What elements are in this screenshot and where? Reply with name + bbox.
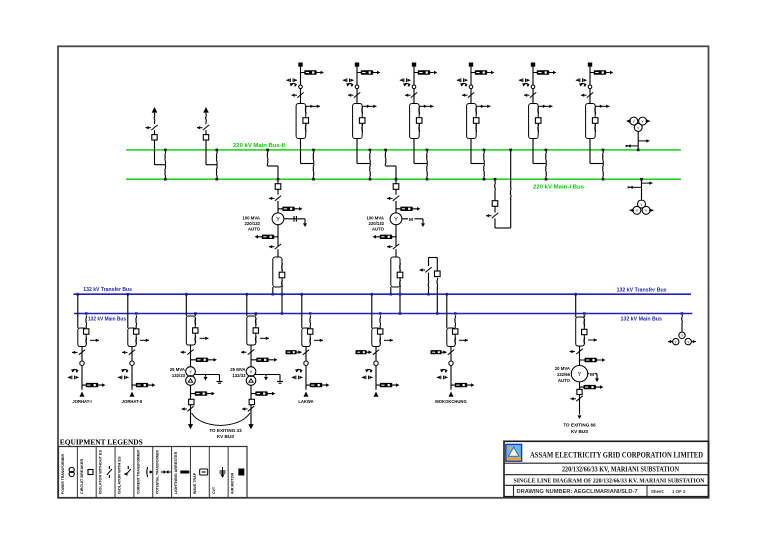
svg-text:132 kV Transfer Bus: 132 kV Transfer Bus [83,287,132,293]
metering arrow branch [459,339,468,341]
circuit breaker bay 6 [592,118,598,124]
25 MVA bay 1 stem + isolator [190,345,192,367]
legend divider 5 [152,447,154,498]
CT loop [372,328,380,347]
svg-text:100 MVA: 100 MVA [242,216,260,221]
bay 6 wire down from terminal [589,67,591,104]
wave trap branch [451,384,471,386]
bay 3 CVT cluster [404,83,410,84]
wave trap branch [376,384,396,386]
PT circle [449,361,453,365]
svg-text:CIRCUIT BREAKER: CIRCUIT BREAKER [80,458,84,494]
bay 2 metering arrow branch [363,105,377,107]
bay 2 wave trap branch [357,72,377,74]
bay 6 CT wavy marks [594,106,597,114]
circuit breaker ATR bay 2 [393,184,399,190]
ATR bay 2 neutral earthing branch [402,218,408,220]
bay 1 bus-II isolator [312,150,315,164]
legend divider 9 [227,447,229,498]
CT wavy [309,338,312,345]
CT loop [78,328,86,347]
bay 2 CT loop (racetrack) [353,104,363,139]
bay 6 isolator with arrow [587,92,593,97]
bay stem [81,347,83,390]
bay 4 CT loop (racetrack) [467,104,477,139]
legend divider 6 [171,447,173,498]
bay stem [131,347,133,390]
svg-text:JORHAT-I: JORHAT-I [72,399,91,404]
main bus isolator leg [309,312,312,315]
svg-text:25 MVA: 25 MVA [170,367,185,372]
circuit breaker bay 5 [535,118,541,124]
svg-text:DRAWING NUMBER: AEGCL/MARIANI/: DRAWING NUMBER: AEGCL/MARIANI/SLD-7 [517,489,638,495]
ATR bay 1 isolator [277,189,279,194]
circuit breaker [308,329,313,334]
bay 1 CVT cluster [290,83,296,84]
drawing number row box [514,485,709,496]
line isolator [303,350,309,355]
132 kV bus coupler top link [429,257,438,259]
svg-text:Sheet:: Sheet: [651,489,665,494]
svg-text:132/66: 132/66 [557,372,571,377]
bay 4 wave trap branch [471,72,491,74]
132 kV feeder bay LAKWA: transfer bus leg [301,293,304,296]
100 MVA ATR bay 1: isolator from Bus-II [266,149,269,152]
CT loop [128,328,136,347]
svg-text:Y: Y [394,217,398,223]
small 220 kV bay 2: line arrow [203,107,209,113]
bus coupler isolator wavy [494,182,497,190]
ATR bay 1 LV isolator [275,244,281,249]
small bay 2 wire to buses [205,140,207,165]
bay 1 wire to bus selection [300,139,302,164]
ATR bay 2 connection to Bus-I [395,178,398,181]
CT wavy [454,338,457,345]
25 MVA bay 2: transfer bus leg [246,293,249,296]
svg-text:AUTO: AUTO [372,226,385,231]
bay 1 wave trap branch [301,72,321,74]
bay 5 CT loop (racetrack) [529,104,539,139]
svg-text:220 kV Main Bus-II: 220 kV Main Bus-II [233,143,286,149]
220 kV line bay 2: line terminal [355,63,359,67]
bay 3 bus-I isolator [426,164,429,180]
220 kV line bay 3: line terminal [412,63,416,67]
svg-text:220/132: 220/132 [368,221,384,226]
bay 6 bus-I isolator [602,164,605,180]
station transformer arrows [668,341,673,343]
wave trap branch [82,384,102,386]
220 kV station transformer above Bus-II [630,117,638,125]
svg-text:1 OF 2: 1 OF 2 [672,489,686,494]
title block separator 1 [504,462,709,464]
bay 6 metering arrow branch [596,105,610,107]
circuit breaker ATR bay 1 [275,184,281,190]
svg-text:TO EXITING 33: TO EXITING 33 [209,428,242,433]
CT wavy [135,338,138,345]
circuit breaker small bay 1 [154,130,156,134]
legend divider 1 [76,447,78,498]
25 MVA bay 1 outgoing arrow [188,424,193,429]
outgoing line terminal [80,392,85,397]
svg-text:EQUIPMENT LEGENDS: EQUIPMENT LEGENDS [60,437,143,446]
line isolator [448,350,454,355]
equipment legends box [59,447,248,498]
20 MVA bay CT loop [576,317,585,346]
bay 4 metering arrow branch [477,105,491,107]
svg-text:132 kV Main Bus: 132 kV Main Bus [621,317,663,323]
25 MVA bay 2 CT loop [247,316,256,345]
25 MVA bay 2 LV isolator [250,405,252,417]
bay 5 CT wavy marks [537,106,540,114]
bay 5 wire to bus selection [532,139,534,164]
ATR bay 2 LV CT loop [391,257,400,287]
bay 2 PT circle [355,85,359,89]
ATR bay 1 link to main bus [281,287,283,314]
bay 1 metering arrow branch [306,105,320,107]
25 MVA 132/33 transformer 1 circles [186,367,196,377]
25 MVA bay 1: transfer bus leg [185,293,188,296]
circuit breaker bay 4 [473,118,479,124]
svg-text:AIR MOTOR: AIR MOTOR [231,472,235,494]
ATR bay 2 link to main bus [399,287,401,314]
outgoing line terminal [130,392,135,397]
svg-text:25 MVA: 25 MVA [230,367,245,372]
svg-text:Y: Y [578,372,582,378]
circuit breaker small bay 2 [205,130,207,134]
bus coupler isolator below breaker [494,206,496,212]
CVT cluster [122,369,128,370]
bay 5 wave trap branch [533,72,553,74]
circuit breaker 25 MVA bay 1 LV [189,399,194,404]
220 kV bus coupler leg from Bus-I [494,178,497,181]
circuit breaker 132 kV bus coupler [436,258,438,272]
circuit breaker 20 MVA LV [577,389,582,394]
bay 5 isolator with arrow [530,92,536,97]
PT circle [374,361,378,365]
station transformer 3-winding circles [679,332,685,338]
circuit breaker [453,329,458,334]
svg-text:LIGHTNING ARRESTER: LIGHTNING ARRESTER [174,451,178,494]
132 kV feeder bay unnamed: transfer bus leg [371,293,374,296]
220 kV line bay 4: line terminal [469,63,473,67]
bay 3 PT circle [412,85,416,89]
132 kV bus coupler transfer-bus leg isolator [428,258,430,267]
small bay 2 bus isolators [215,150,218,165]
svg-text:JORHAT-II: JORHAT-II [122,399,142,404]
small bay 2 isolator [203,125,209,130]
legend divider 8 [208,447,210,498]
ATR bay 2 LV wave trap branch [395,225,397,246]
CVT cluster [366,369,372,370]
bay 1 bus-I isolator [312,164,315,180]
bay 4 isolator with arrow [468,92,474,97]
132 kV Transfer Bus (blue) [74,293,692,295]
outgoing line terminal [374,392,379,397]
wave trap branch [132,384,152,386]
bay 4 PT circle [469,85,473,89]
bay 1 CT loop (racetrack) [296,104,306,139]
25 MVA bay 1 wave trap branch [191,359,214,361]
132 kV feeder bay MOKOKCHUNG: transfer bus leg [446,293,449,296]
small bay 2 wavy [205,113,207,115]
ATR bay 1 neutral earthing branch [284,218,305,220]
svg-text:MOKOKCHUNG: MOKOKCHUNG [435,399,466,404]
svg-text:KV BUS: KV BUS [217,434,234,439]
legend divider 4 [133,447,135,498]
circuit breaker bay 1 [303,118,309,124]
bay 4 wire down from terminal [470,67,472,104]
legend divider 2 [95,447,97,498]
svg-text:132 kV Main Bus: 132 kV Main Bus [88,317,126,323]
bus coupler wavy on Bus-II leg [509,188,512,197]
bay 5 bus-II isolator [545,150,548,164]
metering arrow branch [384,339,393,341]
svg-text:AUTO: AUTO [248,226,261,231]
bay 6 wave trap branch [590,72,610,74]
bay 4 CVT cluster [461,83,467,84]
25 MVA bay 1 CT loop [186,316,195,345]
svg-text:132 kV Transfer Bus: 132 kV Transfer Bus [617,288,667,294]
svg-text:Y: Y [250,370,253,375]
bay 1 CT wavy marks [304,106,307,114]
svg-text:Y: Y [189,370,192,375]
main bus isolator leg [135,312,138,315]
svg-text:POTENTIAL TRANSFORMER: POTENTIAL TRANSFORMER [155,450,159,494]
svg-text:KV BUS: KV BUS [571,429,588,434]
svg-text:220 kV Main-I Bus: 220 kV Main-I Bus [533,184,584,190]
line-side wave trap (left) [356,350,367,354]
20 MVA bay CT wavy + arrow [583,338,586,345]
svg-text:POWER TRANSFORMER: POWER TRANSFORMER [61,454,65,494]
bay 2 CT wavy marks [361,106,364,114]
ATR bay 2 wave trap branch [396,208,417,210]
20 MVA bay main bus isolator leg [583,312,586,315]
bay 2 isolator with arrow [354,92,360,97]
CVT cluster [296,369,302,370]
bay 3 bus-II isolator [426,150,429,164]
small bay 1 isolator [151,125,157,130]
svg-text:220/132: 220/132 [244,221,260,226]
bay 2 wire down from terminal [356,67,358,104]
132 kV Main Bus (blue) [74,313,692,315]
bay 3 CT loop (racetrack) [410,104,420,139]
PT circle [130,361,134,365]
bay 6 bus-II isolator [602,150,605,164]
line-side wave trap (left) [431,350,442,354]
25 MVA bay 2 wave trap branch [251,359,274,361]
title block separator 3 [504,484,709,486]
100 MVA 220/132 transformer 1 circle [272,213,284,225]
bay stem [450,347,452,390]
legend divider 7 [189,447,191,498]
circuit breaker 25 MVA bay 1 [193,328,198,333]
circuit breaker [378,329,383,334]
bay 2 wire to bus selection [356,139,358,164]
svg-text:132/33: 132/33 [232,373,246,378]
220 kV line bay 6: line terminal [588,63,592,67]
CT loop [302,328,310,347]
25 MVA bay 1 earthing branch [195,374,220,376]
bus coupler bottom link [495,227,511,229]
small bay 1 bus isolators [164,150,167,165]
circuit breaker ATR bay 1 LV side [279,272,285,278]
ATR bay 1 LV wave trap branch [277,225,279,246]
circuit breaker bay 2 [359,118,365,124]
220 kV line bay 1: line terminal [298,63,302,67]
bay 4 CT wavy marks [475,106,478,114]
line isolator [129,350,135,355]
ATR bay 1 LV CT loop [273,257,282,287]
bay 1 wire down from terminal [300,67,302,104]
bay 6 CVT cluster [580,83,586,84]
25 MVA bay 1 LV isolator [190,405,192,417]
sheet divider [646,485,648,496]
CVT cluster [72,369,78,370]
bay 3 wire down from terminal [413,67,415,104]
220 kV line bay 5: line terminal [531,63,535,67]
20 MVA bay M branch [588,373,590,375]
CVT cluster [441,369,447,370]
small 220 kV bay 1: line arrow [152,107,158,113]
100 MVA ATR bay 2: isolator from Bus-II [384,149,387,152]
drawing frame [58,46,709,498]
bay 5 metering arrow branch [539,105,553,107]
bay 2 CVT cluster [347,83,353,84]
25 MVA 132/33 transformer 2 circles [246,367,256,377]
circuit breaker bay 3 [416,118,422,124]
svg-text:132/33: 132/33 [172,373,186,378]
100 MVA 220/132 transformer 2 circle [390,213,402,225]
25 MVA bay 2 CT wavy + arrow [254,336,257,343]
main bus isolator leg [454,312,457,315]
132 kV feeder bay JORHAT-I: transfer bus leg [77,293,80,296]
station transformer: main bus tap [681,312,684,315]
220 kV station transformer below Bus-I [640,178,643,181]
ATR bay 2 isolator [395,189,397,194]
bay 2 bus-I isolator [369,164,372,180]
bay stem [375,347,377,390]
bay 3 wire to bus selection [413,139,415,164]
svg-text:TO EXITING 66: TO EXITING 66 [563,422,596,427]
bay 3 isolator with arrow [411,92,417,97]
line isolator [373,350,379,355]
CT wavy [85,338,88,345]
132 kV coupler main-bus leg [436,278,439,286]
bay 4 bus-II isolator [483,150,486,164]
ATR bay 1 connection to Bus-I [277,178,280,181]
bay 1 PT circle [299,85,303,89]
220 kV bus coupler leg from Bus-II [509,149,512,152]
25 MVA bay 1 CT wavy + arrow [194,336,197,343]
25 MVA bay 1 main bus isolator leg [194,312,197,315]
svg-text:M: M [409,217,413,223]
svg-text:ASSAM ELECTRICITY GRID CORPORA: ASSAM ELECTRICITY GRID CORPORATION LIMIT… [530,450,703,459]
PT circle [80,361,84,365]
bay 5 PT circle [531,85,535,89]
ATR bay 1 wave trap branch [278,208,299,210]
circuit breaker 25 MVA bay 2 LV [249,399,254,404]
bay 5 CVT cluster [523,83,529,84]
circuit breaker 20 MVA bay [582,329,587,334]
25 MVA bay 2 LV wave trap [250,385,252,399]
220 kV Main-I Bus (lower green bus) [126,178,681,180]
svg-text:CVT: CVT [212,486,216,494]
svg-text:CURRENT TRANSFORMER: CURRENT TRANSFORMER [136,450,140,494]
metering arrow branch [90,339,99,341]
svg-text:ISOLATOR WITHOUT ES: ISOLATOR WITHOUT ES [99,449,103,494]
circuit breaker [84,329,89,334]
svg-text:100 MVA: 100 MVA [366,216,384,221]
svg-text:M: M [590,372,594,378]
line-side wave trap (left) [286,350,297,354]
line isolator [79,350,85,355]
small bay 1 wavy [154,113,156,115]
bay 1 isolator with arrow [297,92,303,97]
20 MVA bay wave trap branch [580,359,603,361]
outgoing line terminal [449,392,454,397]
bay 6 wire to bus selection [589,139,591,164]
20 MVA LV isolator [579,395,581,407]
svg-text:SINGLE LINE DIAGRAM OF 220/132: SINGLE LINE DIAGRAM OF 220/132/66/33 KV,… [514,477,705,484]
branch arrows on wire [638,140,649,142]
wire from station transformer to Bus-II [637,131,639,150]
25 MVA bay 2 stem + isolator [250,345,252,367]
svg-text:LAKWA: LAKWA [298,399,313,404]
svg-text:WAVE TRAP: WAVE TRAP [193,472,197,494]
25 MVA bay 2 earthing branch [255,374,280,376]
svg-text:220/132/66/33 KV, MARIANI SUBS: 220/132/66/33 KV, MARIANI SUBSTATION [562,466,679,473]
bay 2 bus-II isolator [369,150,372,164]
PT circle [304,361,308,365]
bay stem [305,347,307,390]
ATR bay 2 LV isolator [393,244,399,249]
bay 3 metering arrow branch [420,105,434,107]
svg-text:ISOLATOR WITH ES: ISOLATOR WITH ES [118,456,122,494]
bay 6 CT loop (racetrack) [586,104,596,139]
main bus isolator leg [379,312,382,315]
AEGCL logo [506,444,522,461]
svg-text:20 MVA: 20 MVA [555,366,570,371]
swoosh link to existing 33 kV bus [192,413,251,426]
circuit breaker 25 MVA bay 2 [253,328,258,333]
legend divider 3 [114,447,116,498]
25 MVA bay 1 LV wave trap [190,385,192,399]
ATR bay 1 link to transfer bus [272,287,274,294]
bay 3 CT wavy marks [418,106,421,114]
20 MVA bay stem + isolator [579,346,581,365]
132 kV feeder bay JORHAT-II: transfer bus leg [127,293,130,296]
circuit breaker 220 kV bus coupler [494,190,496,201]
small bay 1 wire to buses [154,140,156,165]
20 MVA 132/66 transformer circle [571,366,587,382]
svg-text:AUTO: AUTO [558,378,571,383]
bay 4 wire to bus selection [470,139,472,164]
bay 6 PT circle [588,85,592,89]
CT loop [447,328,455,347]
title block separator 2 [504,474,709,476]
wave trap branch [306,384,326,386]
25 MVA bay 2 outgoing arrow [248,424,253,429]
bay 4 bus-I isolator [483,164,486,180]
circuit breaker [134,329,139,334]
ATR bay 2 link to transfer bus [390,287,392,294]
main bus isolator leg [85,312,88,315]
bay 5 wire down from terminal [532,67,534,104]
20 MVA bay LV wave trap [579,382,581,389]
20 MVA bay: transfer bus leg [574,293,577,296]
220 kV Main Bus-II (upper green bus) [126,149,681,151]
bay 3 wave trap branch [414,72,434,74]
